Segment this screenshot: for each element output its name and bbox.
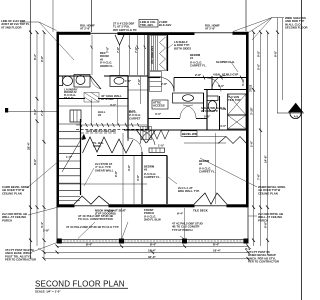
svg-text:SECOND FLOOR PLAN: SECOND FLOOR PLAN	[35, 280, 125, 289]
rec dim ticks	[91, 46, 146, 50]
svg-text:TILE FL.: TILE FL.	[64, 96, 75, 100]
bottom wall segment middle	[109, 204, 195, 207]
wic shelf line	[128, 89, 148, 91]
svg-text:CEILING PLAN: CEILING PLAN	[258, 191, 278, 195]
interior wall rec room bottom	[57, 75, 90, 77]
svg-text:8'-4": 8'-4"	[86, 243, 93, 247]
leader note top-left	[1, 19, 30, 29]
svg-text:CONT.: CONT.	[93, 144, 102, 148]
svg-text:ACCESS: ACCESS	[153, 104, 165, 108]
svg-text:1'-6": 1'-6"	[250, 140, 254, 147]
svg-text:9'-4": 9'-4"	[177, 212, 184, 216]
beam dashed line	[76, 129, 147, 133]
svg-text:28'-4": 28'-4"	[27, 142, 31, 150]
svg-text:WD SHELVES: WD SHELVES	[150, 46, 154, 64]
svg-text:AT 2ND FLOOR: AT 2ND FLOOR	[1, 25, 21, 29]
interior wall bed3 top	[97, 155, 167, 157]
svg-text:9'-8": 9'-8"	[40, 55, 44, 62]
svg-text:TO CLG. CONSTRUCTION: TO CLG. CONSTRUCTION	[78, 217, 113, 221]
black square symbol left	[5, 108, 8, 113]
note top right of box	[159, 20, 171, 27]
stairwell railing zigzag	[83, 137, 113, 153]
svg-text:AT 2'-8": AT 2'-8"	[205, 27, 216, 31]
svg-text:16'-4": 16'-4"	[148, 249, 156, 253]
vanity counter bath2	[173, 93, 204, 103]
linen closet hatch	[141, 127, 152, 140]
svg-text:4x10 BM (FLUSH) ABV: 4x10 BM (FLUSH) ABV	[86, 129, 116, 133]
vanity 2 master bath	[110, 76, 128, 87]
svg-text:7'-6": 7'-6"	[137, 78, 141, 85]
left dim ticks	[29, 31, 46, 243]
svg-text:3'-4": 3'-4"	[40, 221, 44, 228]
leader note top-right	[285, 16, 308, 30]
door arcs hall to bath2	[180, 105, 193, 118]
svg-text:9'-8": 9'-8"	[257, 50, 261, 57]
note top c	[205, 23, 220, 30]
right dim line c	[267, 32, 269, 255]
leader note left lower	[2, 212, 27, 222]
svg-text:4T 4C PHL2-DBF STUD 4B TO CLG: 4T 4C PHL2-DBF STUD 4B TO CLG TYP.	[66, 225, 119, 229]
bed2 closet shelf lines	[184, 136, 226, 138]
top window 1	[90, 32, 118, 34]
svg-text:3'-10": 3'-10"	[241, 78, 245, 86]
bottom dim line 1	[57, 245, 248, 247]
right dim line a	[253, 32, 255, 246]
wc wall bath2	[203, 93, 205, 112]
section marker	[277, 103, 304, 119]
svg-text:7'-4": 7'-4"	[40, 109, 44, 116]
double doors bed2 closet	[153, 130, 161, 139]
svg-text:BOTH SIDES: BOTH SIDES	[174, 46, 191, 50]
svg-text:7'-0": 7'-0"	[106, 46, 110, 53]
left dim texts rotated	[27, 53, 45, 228]
svg-text:SCALE: 1/4" = 1'-0": SCALE: 1/4" = 1'-0"	[35, 289, 61, 293]
svg-text:CARPET FL.: CARPET FL.	[190, 64, 207, 68]
left dim line a	[30, 22, 32, 259]
svg-text:TILE DECK: TILE DECK	[193, 209, 208, 213]
porch deck edge lines	[57, 238, 248, 240]
svg-text:W/2 GWP CLG TR: W/2 GWP CLG TR	[113, 28, 137, 32]
bottom-left window mull triangles	[74, 196, 109, 204]
note shear wall with leader	[95, 162, 114, 172]
bottom window 1 sill	[74, 205, 109, 207]
door arc hall top	[160, 78, 174, 92]
svg-text:8'-4": 8'-4"	[213, 243, 220, 247]
dim extension lines bed3	[122, 133, 124, 204]
porch side edges	[56, 208, 58, 244]
hall linen cabinet	[70, 110, 81, 122]
svg-text:8'-2": 8'-2"	[33, 53, 37, 60]
bottom dim line 3	[44, 258, 249, 260]
svg-text:7'-0": 7'-0"	[129, 109, 136, 113]
closet right wall	[167, 35, 169, 71]
wall dim ticks bed4	[203, 76, 242, 80]
title underline	[35, 287, 128, 289]
leader note left mid	[2, 185, 29, 195]
top window 2	[194, 32, 233, 34]
interior dim lines rec room	[129, 35, 131, 75]
top wall segment middle	[118, 32, 195, 35]
label wic	[129, 110, 141, 120]
hall upper line	[59, 105, 128, 107]
right dim line e	[282, 18, 284, 100]
door arc wic to bed3	[128, 138, 142, 152]
top window V mark	[115, 35, 124, 45]
right dim ticks	[252, 31, 279, 243]
svg-text:2'-8": 2'-8"	[161, 82, 168, 86]
bottom dim line 2	[44, 251, 249, 253]
svg-text:TRD. ABV.: TRD. ABV.	[140, 23, 154, 27]
svg-text:CARPET: CARPET	[129, 116, 141, 120]
door fan arcs hall to bed3	[137, 130, 155, 145]
leader note right mid	[258, 185, 285, 195]
svg-text:CARPET FL.: CARPET FL.	[144, 175, 161, 179]
room label bedrm3	[144, 165, 161, 180]
svg-text:2ND FL BLW: 2ND FL BLW	[144, 218, 161, 222]
svg-text:2'-8": 2'-8"	[195, 73, 202, 77]
svg-text:BLK ABV: BLK ABV	[159, 23, 171, 27]
label hall	[98, 110, 106, 117]
left wall	[57, 32, 60, 208]
svg-text:16'-4": 16'-4"	[213, 249, 221, 253]
closet bed4 hatch	[150, 36, 167, 92]
svg-text:PORCH: PORCH	[2, 218, 12, 222]
room label bedrm4	[190, 53, 207, 68]
interior wall bath bottom	[57, 98, 85, 100]
top wall segment right	[233, 32, 249, 35]
svg-text:3'-0": 3'-0"	[110, 103, 117, 107]
svg-text:9'-8": 9'-8"	[274, 50, 278, 57]
boxed note bedroom wall	[181, 131, 197, 137]
tub bath2 with X	[228, 115, 247, 129]
bottom wall segment left	[57, 204, 75, 207]
svg-text:5'-0": 5'-0"	[204, 115, 211, 119]
svg-text:7'-6": 7'-6"	[116, 46, 120, 53]
note ln shelf	[174, 40, 191, 50]
svg-text:4'-0": 4'-0"	[220, 124, 227, 128]
porch post grid lines	[121, 208, 123, 239]
porch posts	[57, 239, 62, 244]
note van bath2	[228, 95, 241, 102]
interior wall rec/bed4 divider	[147, 35, 149, 130]
svg-text:9'-8": 9'-8"	[114, 170, 118, 177]
svg-text:14'-6": 14'-6"	[264, 155, 268, 163]
svg-text:1'-6": 1'-6"	[66, 155, 73, 159]
svg-text:SHEAR WALL: SHEAR WALL	[95, 168, 114, 172]
svg-text:PORCH: PORCH	[258, 218, 268, 222]
interior wall wic left	[127, 76, 129, 138]
svg-text:TILE TOP: TILE TOP	[228, 98, 241, 102]
interior dim row hall	[76, 124, 147, 126]
door arc bedroom4	[212, 76, 226, 90]
svg-text:AT 2'-8": AT 2'-8"	[80, 27, 91, 31]
svg-text:1'-0": 1'-0"	[158, 144, 165, 148]
note top b	[113, 21, 137, 31]
svg-text:5'-0": 5'-0"	[218, 84, 225, 88]
svg-text:AT STAIR: AT STAIR	[101, 97, 113, 101]
right dim texts rotated	[250, 50, 278, 228]
svg-text:PER TO CONTRACTOR: PER TO CONTRACTOR	[248, 260, 279, 264]
porch note row2	[66, 222, 203, 232]
left dim line b	[36, 32, 38, 246]
vanity 1 master bath	[74, 75, 90, 88]
interior wall bed2 bed3 divider	[166, 156, 168, 205]
page border line	[301, 0, 303, 300]
stair direction arrow	[62, 134, 84, 172]
toilet master bath	[59, 76, 63, 86]
leader from square	[8, 110, 56, 112]
attic access boxed label	[152, 100, 168, 109]
svg-text:4 BAL AT ML2 GYP: 4 BAL AT ML2 GYP	[213, 73, 238, 77]
svg-text:7'-6": 7'-6"	[257, 173, 261, 180]
svg-text:8'-6": 8'-6"	[33, 158, 37, 165]
svg-text:PER TO CONTRACTOR: PER TO CONTRACTOR	[5, 258, 36, 262]
room label master bath	[64, 87, 78, 99]
svg-text:BRG WALL TYP.: BRG WALL TYP.	[178, 189, 200, 193]
hall extension lines	[91, 99, 93, 125]
interior wall bath2 left	[206, 90, 208, 131]
interior dim texts	[66, 46, 253, 181]
right wall	[246, 32, 249, 208]
bottom window 2 sill	[194, 205, 227, 207]
svg-text:CARPET FL.: CARPET FL.	[199, 170, 216, 174]
stair stringer wall	[80, 119, 82, 195]
room label front porch	[144, 208, 161, 222]
ceiling break line bed2	[215, 133, 217, 204]
svg-text:A-5: A-5	[294, 115, 299, 119]
bottom-right window mull triangles	[194, 193, 227, 204]
shower bath2 with X	[228, 94, 247, 115]
porch note left	[78, 214, 113, 221]
leader line left margin	[57, 183, 147, 185]
svg-text:5'-0": 5'-0"	[257, 63, 261, 70]
door arc wc	[207, 78, 221, 92]
stair landing lines	[59, 196, 80, 198]
svg-text:8'-4": 8'-4"	[150, 243, 157, 247]
svg-text:3'-6": 3'-6"	[127, 164, 131, 171]
right dim line b	[260, 32, 262, 246]
right dim line d	[277, 18, 279, 113]
note solid wd shelf	[201, 106, 225, 113]
shower master bath hatch	[84, 93, 99, 103]
top margin extension lines	[91, 0, 93, 32]
svg-text:#2: #2	[98, 113, 102, 117]
top wall segment left	[57, 32, 91, 35]
svg-text:3'-6": 3'-6"	[136, 174, 140, 181]
svg-text:3'-10": 3'-10"	[250, 107, 254, 115]
room label bedrm2	[199, 159, 216, 174]
svg-text:W/ ROD TYP.: W/ ROD TYP.	[201, 109, 218, 113]
interior wall bedrooms top	[124, 129, 246, 131]
door leaf master bath	[91, 76, 102, 89]
interior wall bed3 left	[141, 152, 143, 204]
toilet bath2	[207, 96, 218, 100]
svg-text:BEVEL WD: BEVEL WD	[182, 132, 197, 136]
interior wall hall bottom	[148, 118, 180, 120]
left dim line c	[43, 32, 45, 259]
leader note right bottom	[248, 250, 279, 264]
leader note right lower	[258, 212, 283, 222]
note bed2 bottom	[178, 186, 200, 193]
interior wall bath2 top	[204, 89, 246, 91]
room label rec room	[100, 51, 114, 68]
svg-text:TYP AT PORCH: TYP AT PORCH	[172, 228, 192, 232]
stairs treads	[59, 124, 80, 191]
leader note left bottom	[5, 248, 36, 262]
svg-text:34'-0": 34'-0"	[148, 255, 156, 259]
svg-text:7'-6": 7'-6"	[134, 46, 138, 53]
svg-text:1'-6": 1'-6"	[125, 79, 132, 83]
note pl bal	[93, 141, 104, 148]
svg-text:SLOPED CLG.: SLOPED CLG.	[216, 60, 235, 64]
interior wall hall top	[148, 77, 160, 79]
svg-text:SECOND FLOOR: SECOND FLOOR	[285, 26, 308, 30]
wc right wall bath2	[219, 96, 221, 130]
svg-text:HDWD FL.: HDWD FL.	[100, 64, 114, 68]
note top a	[80, 23, 95, 30]
bottom wall segment right	[227, 204, 249, 207]
note 42 high wall	[101, 94, 122, 101]
boxed note top	[139, 20, 158, 28]
svg-text:3'-0": 3'-0"	[155, 112, 162, 116]
svg-text:CEILING PLAN: CEILING PLAN	[2, 191, 22, 195]
closet strip above bed3	[149, 148, 165, 153]
left dim line d	[52, 22, 54, 32]
interior line rec room	[91, 35, 93, 75]
